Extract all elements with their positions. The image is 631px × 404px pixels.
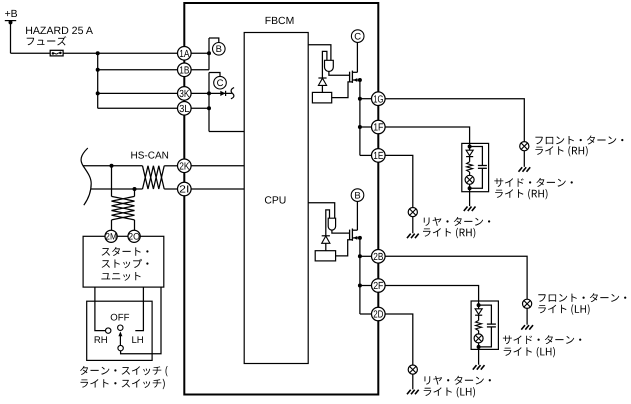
- harness break arc: [81, 148, 91, 205]
- resistor R2 side LH: [476, 320, 482, 330]
- wire bus to 3K: [98, 92, 178, 94]
- wire hook to ref C: [209, 73, 220, 77]
- lamp side turn LH: [474, 334, 483, 343]
- wire CAN-H: [83, 165, 143, 167]
- pin 2F: [372, 279, 386, 293]
- wire resistor to lamp: [469, 172, 471, 175]
- junction 3L node C: [207, 106, 211, 110]
- wire left bus vertical: [97, 53, 99, 108]
- wire CAN-L: [91, 188, 143, 190]
- capacitor C1 side RH: [470, 147, 483, 166]
- wire resistor to lamp: [478, 331, 480, 334]
- svg-text:FBCM: FBCM: [265, 16, 294, 27]
- wire hook to ref B: [209, 38, 219, 43]
- pin 1B: [178, 63, 192, 77]
- twisted pair vertical: [112, 196, 135, 220]
- wire sense to source Q2: [336, 240, 353, 256]
- wire +B down: [10, 22, 12, 53]
- svg-text:LH: LH: [131, 335, 143, 346]
- start stop unit label: [102, 247, 149, 256]
- wire clamp hook U1: [322, 51, 327, 78]
- wire 1G to front RH: [385, 99, 524, 142]
- sense box U1: [312, 92, 331, 103]
- svg-text:2B: 2B: [373, 252, 383, 263]
- wire 1B to node B bus: [191, 69, 209, 71]
- node B reference: [213, 43, 226, 56]
- resistor R1 side RH: [467, 162, 473, 172]
- contact wiper: [118, 345, 123, 350]
- wire node B bus vertical: [208, 38, 210, 70]
- wire CAN-L drop: [134, 189, 136, 196]
- start stop unit box: [83, 236, 164, 287]
- wire 2K to CPU: [191, 165, 244, 167]
- ground rear LH: [407, 390, 411, 395]
- junction bus 3K: [96, 91, 100, 95]
- wire 1E to rear RH: [385, 155, 413, 207]
- wire lamp to ground: [523, 151, 525, 167]
- svg-text:2M: 2M: [105, 232, 117, 242]
- wire bus to 1F: [360, 126, 372, 128]
- wire lamp to ground: [412, 217, 414, 234]
- label front turn RH: [535, 136, 623, 145]
- pin 2I: [178, 182, 192, 196]
- lamp front turn RH: [520, 142, 529, 151]
- junction 3K node C: [207, 91, 211, 95]
- wire bus to 1E: [360, 154, 372, 156]
- svg-text:2I: 2I: [179, 185, 189, 196]
- wire lamp to junction: [469, 184, 471, 188]
- ground front LH: [521, 325, 525, 330]
- wire twist to 2I: [164, 188, 177, 190]
- wire lamp to ground: [526, 308, 528, 324]
- wire lamp to ground: [412, 374, 414, 389]
- wire U1 to gate Q1: [329, 72, 350, 76]
- transistor Q2: [349, 230, 351, 240]
- junction bus 1B: [96, 68, 100, 72]
- lamp rear turn RH: [408, 208, 417, 217]
- wire twist to 2K: [164, 165, 177, 167]
- node C reference upper: [351, 30, 364, 43]
- junction fuse bus 1A: [96, 51, 100, 55]
- wire bus to 1B: [98, 69, 178, 71]
- side turn RH box: [462, 143, 489, 191]
- ground front RH: [519, 167, 523, 172]
- wire bus to 2F: [360, 285, 372, 287]
- CPU box: [244, 33, 308, 364]
- wire bus to 2D: [360, 313, 372, 315]
- wire break symbol: [231, 88, 234, 99]
- pin 3K: [178, 87, 192, 101]
- junction bus 2B: [358, 254, 362, 258]
- contact OFF: [118, 325, 123, 330]
- pin 1G: [372, 92, 386, 106]
- junction 1A node B: [207, 51, 211, 55]
- label side turn LH: [503, 335, 581, 344]
- pin 2M: [105, 230, 117, 242]
- wire LH output bus: [359, 238, 361, 314]
- svg-text:OFF: OFF: [110, 313, 129, 324]
- svg-text:B: B: [216, 44, 222, 55]
- ground rear RH: [407, 234, 411, 239]
- pin 2B: [372, 249, 386, 263]
- svg-text:B: B: [354, 190, 360, 201]
- junction bus 2F: [358, 284, 362, 288]
- svg-text:1B: 1B: [179, 66, 189, 77]
- turn switch box: [87, 301, 152, 360]
- svg-text:HS-CAN: HS-CAN: [131, 150, 169, 161]
- diode D1 (3K feed): [220, 91, 225, 96]
- wire 3K to node C bus: [191, 92, 209, 94]
- junction side RH bottom: [468, 186, 472, 190]
- svg-text:2K: 2K: [179, 162, 189, 173]
- wire drain Q1 to ref C: [356, 42, 358, 72]
- svg-text:2O: 2O: [128, 232, 140, 242]
- driver U2: [328, 218, 335, 230]
- wire bus to 2B: [360, 255, 372, 257]
- pin 2D: [372, 307, 386, 321]
- svg-text:CPU: CPU: [264, 196, 286, 207]
- wire CPU to driver U1: [308, 45, 331, 61]
- svg-text:3K: 3K: [179, 89, 189, 100]
- wire drain Q2 to ref B: [356, 201, 358, 230]
- wire 1A to node B bus: [191, 52, 209, 54]
- wire 3K through diode: [209, 92, 232, 94]
- node B reference lower: [351, 189, 364, 202]
- wire fuse to pin 1A: [63, 52, 178, 54]
- lamp rear turn LH: [408, 365, 417, 374]
- pin 1A: [178, 47, 192, 61]
- junction source Q2: [358, 236, 362, 240]
- contact RH: [106, 328, 111, 333]
- wire 2B to front LH: [385, 256, 527, 299]
- diode D4 side RH: [469, 147, 471, 151]
- wire unit to RH contact: [95, 287, 106, 331]
- fuse HAZARD 25 A: [50, 50, 63, 56]
- junction side LH bottom: [477, 345, 481, 349]
- pin 1F: [372, 120, 386, 134]
- wire clamp hook U2: [326, 210, 330, 236]
- wire C bus to CPU: [209, 131, 244, 133]
- pin 2K: [178, 159, 192, 173]
- wire U2 to gate Q2: [332, 230, 350, 233]
- wire RH output bus: [359, 80, 361, 155]
- junction source Q1: [358, 78, 362, 82]
- lamp side turn RH: [465, 175, 474, 184]
- wire 2I to CPU: [191, 188, 244, 190]
- ground side RH: [464, 207, 468, 212]
- sense box U2: [315, 251, 335, 261]
- wire CPU to driver U2: [308, 203, 335, 218]
- capacitor C2 side LH: [479, 305, 492, 324]
- svg-text:1A: 1A: [179, 49, 189, 60]
- label front turn LH: [538, 293, 626, 302]
- pin 2O: [128, 230, 140, 242]
- transistor Q1: [349, 72, 351, 82]
- driver U1: [325, 60, 334, 71]
- wire lamp to junction: [478, 343, 480, 347]
- diode D2 clamp: [318, 77, 326, 79]
- svg-text:1F: 1F: [373, 123, 383, 134]
- switch wiper arm: [119, 335, 121, 346]
- lamp front turn LH: [523, 299, 532, 308]
- label side turn RH: [494, 178, 572, 187]
- pin 3L: [178, 102, 192, 116]
- junction bus 1G: [358, 97, 362, 101]
- wire side LH to ground: [478, 347, 480, 365]
- wire bus to 3L: [98, 107, 178, 109]
- svg-text:2F: 2F: [373, 281, 383, 292]
- wire bus to 1G: [360, 98, 372, 100]
- diode D5 side LH: [478, 305, 480, 309]
- junction side LH top: [477, 303, 481, 307]
- wire sense to source Q1: [332, 82, 353, 98]
- svg-text:2D: 2D: [373, 310, 383, 321]
- svg-text:RH: RH: [94, 335, 108, 346]
- label rear turn RH: [424, 217, 490, 226]
- wire twist to 2O: [134, 220, 136, 231]
- junction side RH top: [468, 145, 472, 149]
- svg-text:HAZARD 25 A: HAZARD 25 A: [25, 25, 94, 37]
- wire 3L to node C bus: [191, 107, 209, 109]
- svg-text:1E: 1E: [373, 151, 383, 162]
- wire twist to 2M: [111, 220, 113, 231]
- wire side RH to ground: [469, 188, 471, 206]
- side turn LH box: [471, 301, 498, 349]
- junction CAN-L: [133, 187, 137, 191]
- svg-text:C: C: [217, 78, 224, 89]
- node C reference: [214, 76, 227, 89]
- svg-text:C: C: [354, 31, 361, 42]
- fuse label fuse(jp): [27, 36, 67, 45]
- junction CAN-H: [110, 164, 114, 168]
- wire node C bus vertical: [208, 73, 210, 132]
- wire 2F to side LH: [385, 286, 479, 306]
- wire CAN-H drop: [111, 166, 113, 197]
- svg-text:3L: 3L: [179, 104, 189, 115]
- FBCM module box: [184, 3, 378, 395]
- label rear turn LH: [425, 376, 491, 385]
- turn switch label: [80, 366, 168, 377]
- svg-text:1G: 1G: [373, 94, 383, 105]
- wire 2D to rear LH: [385, 314, 413, 365]
- junction bus 1F: [358, 125, 362, 129]
- ground side LH: [473, 365, 477, 370]
- wire 1F to side RH: [385, 127, 470, 147]
- twisted pair horizontal: [143, 166, 165, 189]
- pin 1E: [372, 149, 386, 163]
- wire unit to LH contact: [135, 287, 143, 331]
- wire wiper return: [121, 287, 161, 354]
- diode D3 clamp: [322, 235, 330, 237]
- svg-text:+B: +B: [5, 9, 18, 20]
- wire +B to fuse: [11, 52, 51, 54]
